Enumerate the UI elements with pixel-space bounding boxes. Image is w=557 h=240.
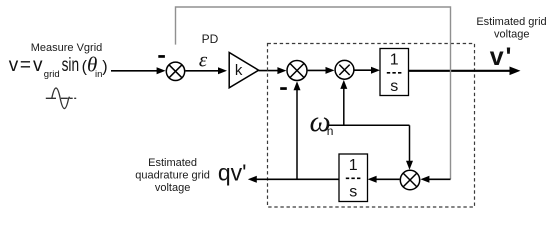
svg-text:qv': qv' [218,160,247,186]
gray feedback wire from v' node to summer and to M3 [176,7,451,179]
dashed SOGI block boundary [268,44,475,208]
wire: qv' output line [248,176,339,183]
svg-text:s: s [390,78,398,95]
svg-text:quadrature grid: quadrature grid [135,170,210,182]
wire: input to error summer [111,67,166,74]
summing junction S1 [166,62,184,80]
minus sign at summer input [158,55,165,58]
multiplier M1 [287,61,307,81]
input sine wave symbol [46,88,76,109]
wire: gain k to multiplier M1 [259,67,287,74]
svg-text:=: = [20,55,31,76]
wire: M2 to integrator I1 [355,67,381,74]
wire: omega_n branch down into M3 [406,125,413,170]
integrator block I2 (1/s) [339,154,368,202]
wire: qv' feedback up into M1 [294,81,301,179]
svg-text:sin: sin [62,54,79,76]
svg-text:ε: ε [199,48,208,72]
svg-text:in: in [95,69,102,80]
wire: M3 to integrator I2 [368,176,400,183]
svg-text:): ) [102,59,107,76]
label Estimated quadrature grid voltage [135,157,210,194]
svg-text:1: 1 [349,157,358,174]
wire: summer to gain k, epsilon [185,67,227,74]
label omega_n [310,105,334,138]
svg-text:n: n [327,124,334,138]
svg-text:voltage: voltage [155,182,190,194]
svg-text:v: v [33,55,43,76]
wire: M1 to multiplier M2 [308,67,335,74]
svg-text:1: 1 [390,52,399,69]
label Estimated grid voltage [476,16,546,40]
input source equation v = vgrid sin(theta_in) [9,53,108,81]
svg-text:voltage: voltage [494,28,529,40]
svg-text:grid: grid [44,69,60,80]
gain block k (triangle amplifier) [229,53,258,88]
wire: omega_n branch up into M2 [340,80,347,125]
svg-text:k: k [235,62,243,79]
wire: v' output line [409,67,521,76]
svg-text:PD: PD [202,32,219,46]
svg-text:v: v [9,55,19,76]
minus sign at M1 lower input [280,87,287,90]
multiplier M3 [400,170,419,189]
svg-text:Estimated: Estimated [148,157,197,169]
svg-text:Estimated grid: Estimated grid [476,16,546,28]
integrator block I1 (1/s) [380,49,409,96]
multiplier M2 [335,60,354,79]
svg-text:s: s [349,184,357,201]
wire: v' feedback into M3 right input [420,176,450,183]
svg-text:v': v' [490,43,512,71]
wire: omega_n horizontal line [328,124,409,126]
